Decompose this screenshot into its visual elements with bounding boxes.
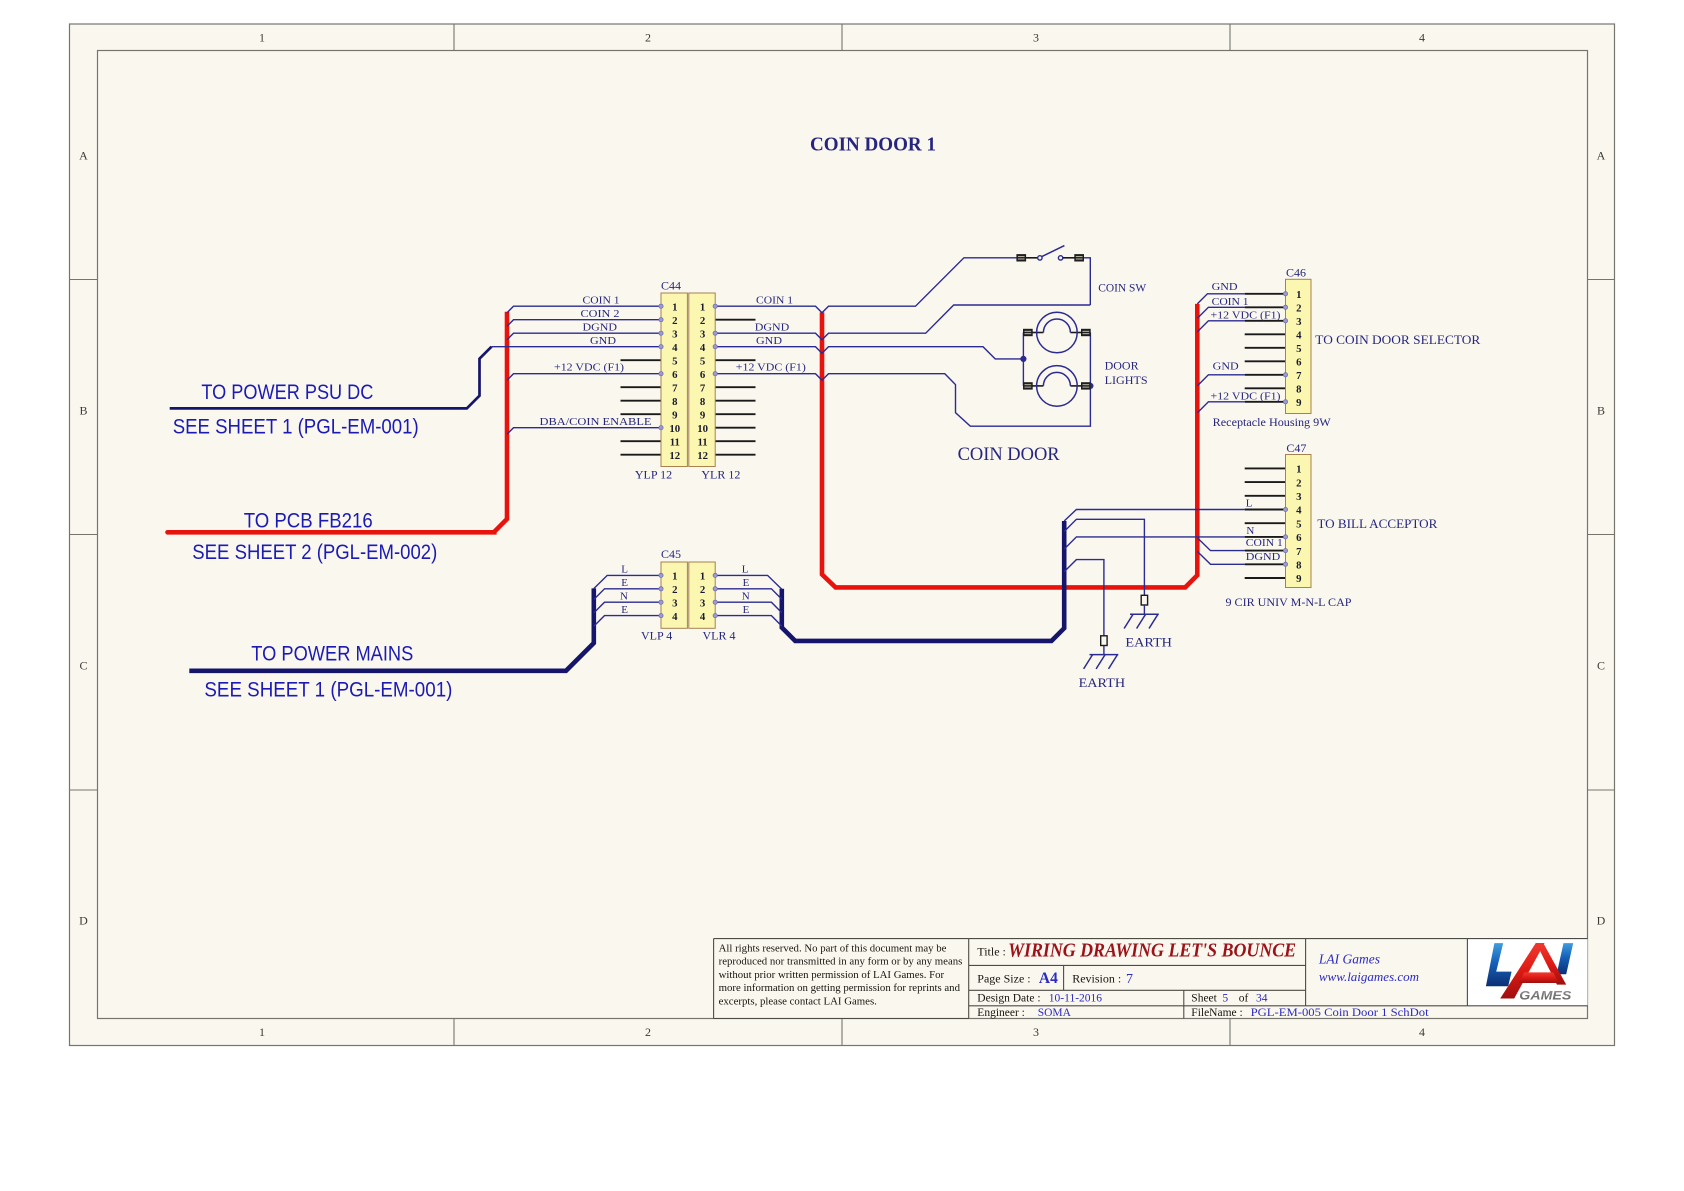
svg-text:12: 12 xyxy=(669,450,680,462)
wire COIN 1 (C44 YLP pin 1) xyxy=(507,306,661,313)
wire L (C45 VLR pin 1) xyxy=(715,575,782,589)
svg-text:1: 1 xyxy=(672,301,677,313)
svg-text:L: L xyxy=(1246,498,1253,510)
svg-text:9 CIR UNIV M-N-L CAP: 9 CIR UNIV M-N-L CAP xyxy=(1226,597,1352,609)
svg-text:TO PCB FB216: TO PCB FB216 xyxy=(244,509,373,532)
svg-text:TO BILL ACCEPTOR: TO BILL ACCEPTOR xyxy=(1317,516,1437,531)
svg-text:10: 10 xyxy=(669,423,680,435)
svg-text:EARTH: EARTH xyxy=(1079,676,1126,690)
svg-text:2: 2 xyxy=(1296,477,1301,489)
connector C45 VLR 4 xyxy=(689,562,715,628)
svg-text:B: B xyxy=(79,404,87,418)
svg-text:COIN 1: COIN 1 xyxy=(1246,537,1283,549)
svg-text:DGND: DGND xyxy=(755,322,790,334)
svg-text:10: 10 xyxy=(697,423,708,435)
svg-text:COIN 1: COIN 1 xyxy=(1212,296,1249,308)
svg-text:C45: C45 xyxy=(661,547,681,561)
svg-text:TO COIN DOOR SELECTOR: TO COIN DOOR SELECTOR xyxy=(1315,332,1480,347)
svg-text:COIN DOOR 1: COIN DOOR 1 xyxy=(810,134,936,156)
svg-text:N: N xyxy=(620,591,628,603)
wire DGND (C47 pin 8) xyxy=(1197,551,1244,564)
svg-text:4: 4 xyxy=(700,342,706,354)
svg-text:E: E xyxy=(621,604,628,616)
wire DGND (C44 YLP pin 3) xyxy=(507,333,661,340)
svg-text:SEE SHEET 1 (PGL-EM-001): SEE SHEET 1 (PGL-EM-001) xyxy=(204,679,452,702)
wire COIN 2 (C44 YLP pin 2) xyxy=(507,320,661,327)
svg-text:7: 7 xyxy=(672,382,678,394)
fuse earth 2 xyxy=(1101,636,1107,646)
svg-text:DGND: DGND xyxy=(583,322,618,334)
svg-text:FileName :: FileName : xyxy=(1191,1007,1242,1019)
svg-text:6: 6 xyxy=(1296,357,1302,369)
svg-text:DOOR: DOOR xyxy=(1105,360,1139,372)
svg-text:SOMA: SOMA xyxy=(1038,1007,1072,1019)
svg-text:3: 3 xyxy=(1033,31,1039,45)
svg-text:+12 VDC (F1): +12 VDC (F1) xyxy=(554,362,624,374)
svg-text:of: of xyxy=(1239,993,1249,1005)
svg-text:N: N xyxy=(742,591,750,603)
wire E to earth 2 xyxy=(1064,560,1104,636)
wire GND (C46 pin 1) xyxy=(1197,294,1244,304)
svg-text:1: 1 xyxy=(700,571,705,583)
svg-text:3: 3 xyxy=(1296,316,1302,328)
svg-text:WIRING DRAWING LET'S BOUNCE: WIRING DRAWING LET'S BOUNCE xyxy=(1008,941,1296,962)
C44 YLP unconnected pin stubs xyxy=(621,359,662,361)
C44 YLR unconnected pin stubs xyxy=(715,319,755,321)
svg-text:LIGHTS: LIGHTS xyxy=(1105,375,1148,387)
C47 pin stubs xyxy=(1245,467,1286,469)
C46 pin dots xyxy=(1283,292,1287,296)
svg-text:+12 VDC (F1): +12 VDC (F1) xyxy=(736,362,806,374)
wire DBA/COIN ENABLE (C44 YLP pin 10) xyxy=(507,428,661,435)
svg-text:12: 12 xyxy=(697,450,708,462)
wire red harness coin door loom xyxy=(822,304,1197,588)
svg-text:8: 8 xyxy=(672,396,678,408)
svg-text:C: C xyxy=(1597,659,1605,673)
svg-text:4: 4 xyxy=(1419,1025,1425,1039)
svg-text:L: L xyxy=(742,564,749,576)
svg-text:+12 VDC (F1): +12 VDC (F1) xyxy=(1211,310,1281,322)
svg-text:VLR 4: VLR 4 xyxy=(703,628,736,642)
svg-text:COIN DOOR: COIN DOOR xyxy=(958,444,1060,465)
lamp DS2 door light xyxy=(1023,366,1090,407)
svg-text:8: 8 xyxy=(700,396,706,408)
svg-text:7: 7 xyxy=(1296,546,1302,558)
svg-text:5: 5 xyxy=(1296,343,1301,355)
svg-text:A4: A4 xyxy=(1039,970,1058,987)
switch COIN SW xyxy=(1026,257,1038,259)
svg-text:SEE SHEET 2 (PGL-EM-002): SEE SHEET 2 (PGL-EM-002) xyxy=(192,541,437,564)
wire COIN 1 (C47 pin 7) xyxy=(1197,538,1244,551)
wire N (C45 VLP pin 3) xyxy=(594,602,661,613)
svg-text:C: C xyxy=(79,659,87,673)
svg-text:5: 5 xyxy=(1296,518,1301,530)
svg-text:Engineer :: Engineer : xyxy=(977,1007,1025,1019)
connector C45 VLP 4 xyxy=(661,562,687,628)
svg-text:2: 2 xyxy=(700,584,705,596)
svg-text:PGL-EM-005 Coin Door 1 SchDot: PGL-EM-005 Coin Door 1 SchDot xyxy=(1251,1007,1430,1019)
svg-text:5: 5 xyxy=(700,355,705,367)
wire harness to power PSU DC xyxy=(170,347,492,409)
svg-text:www.laigames.com: www.laigames.com xyxy=(1319,969,1419,984)
svg-text:LAI Games: LAI Games xyxy=(1318,952,1380,967)
svg-text:GND: GND xyxy=(590,335,616,347)
svg-text:GND: GND xyxy=(756,335,782,347)
svg-text:3: 3 xyxy=(700,328,706,340)
LAI Games logo xyxy=(1486,943,1573,1002)
svg-text:1: 1 xyxy=(259,1025,265,1039)
connector C47 9 CIR UNIV cap xyxy=(1286,455,1312,588)
svg-text:GAMES: GAMES xyxy=(1519,990,1571,1002)
svg-text:+12 VDC (F1): +12 VDC (F1) xyxy=(1211,391,1281,403)
svg-text:1: 1 xyxy=(700,301,705,313)
svg-text:C44: C44 xyxy=(661,279,681,293)
svg-text:GND: GND xyxy=(1213,361,1239,373)
ground earth 2 xyxy=(1090,654,1119,656)
svg-text:3: 3 xyxy=(672,597,678,609)
C46 pin stubs xyxy=(1245,293,1286,295)
title block xyxy=(1467,939,1587,1006)
svg-text:COIN 1: COIN 1 xyxy=(583,295,620,307)
svg-text:D: D xyxy=(79,914,88,928)
wire harness to power mains xyxy=(189,588,594,670)
svg-text:6: 6 xyxy=(700,369,706,381)
svg-text:2: 2 xyxy=(645,1025,651,1039)
svg-text:without prior written permissi: without prior written permission of LAI … xyxy=(719,969,945,981)
wire E (C45 VLP pin 4) xyxy=(594,616,661,627)
svg-text:YLP 12: YLP 12 xyxy=(635,467,672,481)
svg-text:6: 6 xyxy=(1296,532,1302,544)
svg-text:reproduced nor transmitted in: reproduced nor transmitted in any form o… xyxy=(719,956,963,968)
svg-text:EARTH: EARTH xyxy=(1125,636,1172,650)
svg-text:E: E xyxy=(621,577,628,589)
svg-text:B: B xyxy=(1597,404,1605,418)
svg-text:34: 34 xyxy=(1256,993,1268,1005)
svg-text:5: 5 xyxy=(672,355,677,367)
svg-text:COIN 1: COIN 1 xyxy=(756,295,793,307)
svg-text:1: 1 xyxy=(259,31,265,45)
svg-text:E: E xyxy=(743,604,750,616)
svg-text:TO POWER PSU DC: TO POWER PSU DC xyxy=(201,381,373,404)
svg-text:4: 4 xyxy=(1296,330,1302,342)
wire L to bill acceptor xyxy=(1064,510,1245,522)
wire COIN 1 (C46 pin 2) xyxy=(1197,307,1244,318)
connector C46 receptacle housing 9W xyxy=(1286,279,1312,413)
svg-text:8: 8 xyxy=(1296,384,1302,396)
wire +12 VDC F1 to door lights (C44 YLR pin 6) xyxy=(715,333,1090,427)
svg-text:COIN SW: COIN SW xyxy=(1098,283,1146,295)
svg-text:2: 2 xyxy=(645,31,651,45)
wire E (C45 VLP pin 2) xyxy=(594,589,661,600)
svg-text:COIN 2: COIN 2 xyxy=(581,308,620,320)
wire L (C45 VLP pin 1) xyxy=(594,575,661,588)
svg-text:C46: C46 xyxy=(1286,265,1306,279)
svg-text:4: 4 xyxy=(1296,505,1302,517)
C44 pin dots xyxy=(659,304,663,308)
wire GND (C44 YLP pin 4) xyxy=(492,346,662,348)
svg-text:4: 4 xyxy=(672,342,678,354)
svg-text:TO POWER MAINS: TO POWER MAINS xyxy=(251,642,413,665)
svg-text:SEE SHEET 1 (PGL-EM-001): SEE SHEET 1 (PGL-EM-001) xyxy=(173,416,419,439)
switch COIN SW terminal 2 xyxy=(1075,255,1084,262)
svg-text:Sheet: Sheet xyxy=(1191,993,1217,1005)
wire +12 VDC F1 (C46 pin 3) xyxy=(1197,321,1244,332)
svg-text:Page Size :: Page Size : xyxy=(977,971,1030,985)
svg-text:Receptacle Housing 9W: Receptacle Housing 9W xyxy=(1213,417,1331,429)
svg-text:5: 5 xyxy=(1222,993,1228,1005)
C47 pin dots xyxy=(1283,507,1287,511)
svg-text:E: E xyxy=(743,577,750,589)
svg-text:2: 2 xyxy=(672,315,677,327)
svg-text:2: 2 xyxy=(700,315,705,327)
wire COIN 1 to coin switch (C44 YLR pin 1) xyxy=(715,258,1017,313)
svg-text:7: 7 xyxy=(700,382,706,394)
svg-text:2: 2 xyxy=(672,584,677,596)
svg-text:1: 1 xyxy=(1296,464,1301,476)
ground earth 1 xyxy=(1130,613,1159,615)
svg-text:more information on getting pe: more information on getting permission f… xyxy=(719,982,961,994)
svg-text:VLP 4: VLP 4 xyxy=(641,628,672,642)
wire DGND switch return (C44 YLR pin 3) xyxy=(715,305,1090,340)
wire GND to door lights (C44 YLR pin 4) xyxy=(715,347,1023,359)
wire GND (C46 pin 7) xyxy=(1197,375,1244,386)
svg-text:L: L xyxy=(621,564,628,576)
junction door lights left xyxy=(1020,356,1026,362)
svg-text:2: 2 xyxy=(1296,303,1301,315)
wire E (C45 VLR pin 4) xyxy=(715,616,782,627)
junction door lights right xyxy=(1087,383,1093,389)
C45 pin dots xyxy=(659,573,663,577)
svg-text:C47: C47 xyxy=(1286,441,1306,455)
wire N (C45 VLR pin 3) xyxy=(715,602,782,613)
svg-text:DGND: DGND xyxy=(1246,551,1281,563)
svg-text:YLR 12: YLR 12 xyxy=(701,467,740,481)
wire E to earth 1 xyxy=(1064,519,1144,595)
svg-text:6: 6 xyxy=(672,369,678,381)
svg-text:GND: GND xyxy=(1212,281,1238,293)
svg-text:9: 9 xyxy=(1296,397,1302,409)
svg-text:Title :: Title : xyxy=(977,945,1006,959)
svg-text:11: 11 xyxy=(670,436,680,448)
svg-text:A: A xyxy=(1597,149,1606,163)
wire +12 VDC F1 (C46 pin 9) xyxy=(1197,402,1244,413)
svg-text:D: D xyxy=(1597,914,1606,928)
switch COIN SW terminal 1 xyxy=(1017,255,1026,262)
svg-text:All rights reserved. No part o: All rights reserved. No part of this doc… xyxy=(719,943,947,955)
svg-text:1: 1 xyxy=(672,571,677,583)
connector C44 YLR 12 xyxy=(689,293,715,467)
svg-text:3: 3 xyxy=(1296,491,1302,503)
svg-text:4: 4 xyxy=(672,611,678,623)
wire harness coin door mains loom xyxy=(782,521,1064,641)
wire E (C45 VLR pin 2) xyxy=(715,589,782,600)
svg-text:3: 3 xyxy=(700,597,706,609)
lamp DS1 door light xyxy=(1023,312,1090,353)
svg-text:9: 9 xyxy=(672,409,678,421)
svg-text:Revision :: Revision : xyxy=(1072,971,1121,985)
wire red harness to PCB FB216 xyxy=(168,312,508,533)
svg-text:11: 11 xyxy=(697,436,707,448)
svg-text:4: 4 xyxy=(700,611,706,623)
svg-text:8: 8 xyxy=(1296,560,1302,572)
svg-text:10-11-2016: 10-11-2016 xyxy=(1049,993,1102,1005)
svg-text:3: 3 xyxy=(1033,1025,1039,1039)
wire +12 VDC F1 (C44 YLP pin 6) xyxy=(507,374,661,381)
svg-text:9: 9 xyxy=(1296,573,1302,585)
svg-text:4: 4 xyxy=(1419,31,1425,45)
svg-text:9: 9 xyxy=(700,409,706,421)
fuse earth 1 xyxy=(1141,595,1147,605)
svg-text:3: 3 xyxy=(672,328,678,340)
svg-text:7: 7 xyxy=(1296,370,1302,382)
svg-text:1: 1 xyxy=(1296,289,1301,301)
wire N to bill acceptor xyxy=(1064,537,1245,549)
connector C44 YLP 12 xyxy=(661,293,687,467)
svg-text:Design Date :: Design Date : xyxy=(977,993,1040,1005)
svg-text:excerpts, please contact LAI G: excerpts, please contact LAI Games. xyxy=(719,995,877,1007)
svg-text:A: A xyxy=(79,149,88,163)
svg-text:7: 7 xyxy=(1126,972,1133,987)
svg-text:N: N xyxy=(1246,525,1254,537)
svg-text:DBA/COIN ENABLE: DBA/COIN ENABLE xyxy=(540,416,652,428)
